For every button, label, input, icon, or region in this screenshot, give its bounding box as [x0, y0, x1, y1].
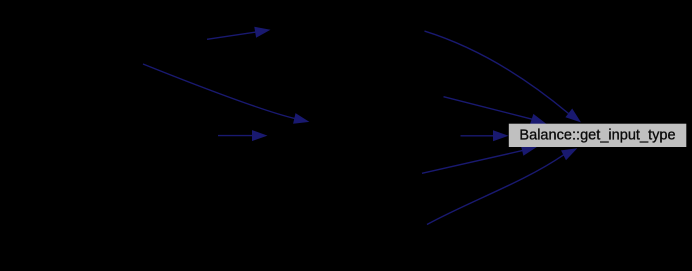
wire edge D (curved edge into top of Balance::get_input_type)	[425, 31, 582, 122]
wire edge H (curved edge into bottom of Balance::get_input_type)	[427, 148, 577, 224]
wire edge C (short horizontal to invisible middle node)	[218, 130, 268, 141]
node Balance::get_input_type (highlighted current node)	[509, 124, 687, 147]
wire edge B (long diagonal to invisible middle node)	[143, 64, 309, 124]
svg-text:Balance::get_input_type: Balance::get_input_type	[519, 128, 675, 144]
wire edge G (straight edge into bottom of Balance::get_input_type)	[422, 145, 537, 173]
wire edge E (straight edge into top of Balance::get_input_type)	[444, 97, 547, 125]
wire edge A (caller to invisible node, upper left)	[207, 27, 271, 40]
wire edge F (horizontal edge into left side of Balance::get_input_type)	[461, 130, 509, 141]
